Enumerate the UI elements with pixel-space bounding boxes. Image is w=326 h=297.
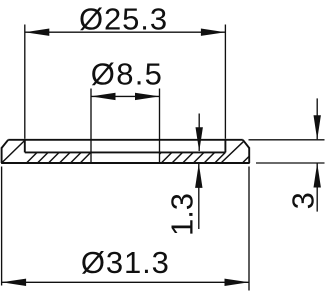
hatch line, left thin section 3 [49, 152, 60, 163]
part outline: right outer edge [248, 147, 250, 163]
part outline: left outer edge [1, 147, 3, 163]
svg-text:3: 3 [286, 192, 321, 209]
extension line left, dim O31.3 [1, 167, 3, 286]
hatch line, right rim [222, 142, 244, 163]
extension line bottom, dim 3 [256, 162, 325, 164]
part outline: top-right chamfer [243, 140, 249, 148]
extension line left / hole edge, dim O8.5 [90, 89, 92, 164]
svg-text:Ø31.3: Ø31.3 [81, 245, 170, 280]
extension line right, dim O25.3 [224, 25, 226, 139]
hatch line, right thin section 3 [183, 152, 194, 163]
extension line top, dim 3 [249, 139, 325, 141]
arrowhead lower (points up to bottom edge), dim 1.3 [195, 163, 202, 188]
arrowhead right, dim O8.5 [135, 93, 160, 100]
hatch line, left thin section 2 [38, 152, 49, 163]
hatch line, right thin section 5 [204, 152, 215, 163]
svg-text:Ø25.3: Ø25.3 [79, 2, 168, 37]
extension line right / hole edge, dim O8.5 [159, 89, 161, 164]
hatch line, left thin section 5 [71, 152, 82, 163]
dimension line O8.5 [91, 95, 160, 97]
part outline: bottom edge [1, 162, 250, 164]
dimension stem lower, dim 1.3 [198, 164, 200, 229]
extension line right, dim O31.3 [248, 167, 250, 291]
hatch line, left thin section 1 [27, 152, 38, 163]
svg-text:1.3: 1.3 [164, 193, 199, 236]
part outline: recess floor edge [25, 151, 226, 153]
arrowhead left, dim O8.5 [91, 93, 116, 100]
hatch line, right thin section 4 [193, 152, 204, 163]
part outline: top-left chamfer [2, 140, 9, 148]
svg-text:Ø8.5: Ø8.5 [91, 56, 163, 91]
part outline: top rim edge [8, 139, 243, 141]
part outline: right recess step [224, 140, 226, 153]
extension line left, dim O25.3 [24, 25, 26, 139]
dimension line O25.3 [25, 31, 226, 33]
dimension stem lower, dim 3 [316, 164, 318, 212]
arrowhead lower (points up to bottom edge), dim 3 [314, 163, 321, 188]
arrowhead left, dim O31.3 [2, 279, 27, 286]
dimension stem upper, dim 1.3 [198, 114, 200, 152]
arrowhead right, dim O25.3 [201, 29, 226, 36]
hatch line, right thin section 1 [161, 152, 172, 163]
arrowhead upper (points down to top edge), dim 3 [314, 115, 321, 140]
dimension stem upper, dim 3 [316, 98, 318, 139]
hatch stub, right thin section at hole edge [160, 152, 162, 154]
arrowhead left, dim O25.3 [25, 29, 50, 36]
hatch line, right thin section 6 [215, 152, 226, 163]
dimension line O31.3 [2, 281, 249, 283]
hatch line, right thin section 2 [172, 152, 183, 163]
hatch line, left rim [2, 140, 25, 162]
hatch line, left thin section 4 [60, 152, 71, 163]
part outline: left recess step [24, 140, 26, 153]
arrowhead upper (points down to recess floor), dim 1.3 [196, 127, 203, 152]
hatch stub, right rim bottom corner [243, 157, 249, 163]
hatch line, left thin section 6 [80, 152, 91, 163]
arrowhead right, dim O31.3 [225, 279, 250, 286]
